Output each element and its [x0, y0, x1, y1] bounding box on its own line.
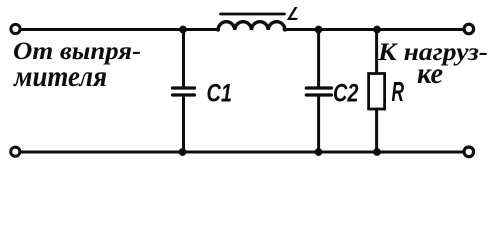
svg-text:C1: C1	[207, 80, 233, 108]
inductor L coil	[218, 22, 285, 30]
svg-text:R: R	[392, 76, 405, 107]
wire bottom	[21, 151, 463, 154]
terminal: output bottom	[464, 147, 474, 157]
node: C1 top junction	[179, 26, 187, 34]
capacitor C2	[306, 30, 331, 153]
value label L	[285, 4, 306, 25]
svg-text:C2: C2	[333, 80, 359, 108]
inductor core line	[221, 13, 285, 16]
wire top-left segment	[22, 28, 219, 31]
svg-text:ке: ке	[417, 57, 443, 90]
node: C2 bottom junction	[315, 148, 323, 156]
terminal: output top	[464, 24, 474, 34]
node: C2 top junction	[315, 26, 323, 34]
svg-text:L: L	[285, 4, 306, 25]
node: R top junction	[373, 26, 381, 34]
terminal: input bottom	[11, 147, 20, 156]
wire top-right segment	[284, 28, 463, 31]
node: C1 bottom junction	[179, 148, 187, 156]
terminal: input top	[11, 24, 20, 33]
capacitor C1	[173, 30, 195, 153]
node: R bottom junction	[373, 148, 381, 156]
resistor R	[369, 30, 385, 153]
svg-text:мителя: мителя	[12, 60, 107, 93]
